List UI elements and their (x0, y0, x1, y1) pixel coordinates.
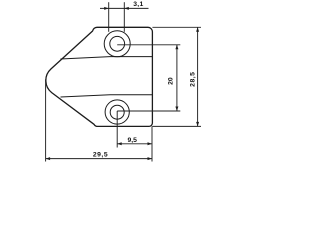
dim line 20 (176, 45, 178, 111)
arrow 9,5 left (117, 142, 122, 145)
svg-text:9,5: 9,5 (127, 137, 137, 144)
bottom hole vertical center line (ext for dim 9,5) (116, 111, 118, 148)
arrow 28,5 bottom (196, 122, 199, 127)
dim line 3,1 (100, 7, 149, 9)
top hole center line (ext for dim 20) (117, 44, 180, 46)
ext line dim 29,5 left (45, 79, 47, 161)
top hole inner circle (110, 36, 125, 51)
arrow 3,1 right (outside, pointing left) (124, 7, 129, 10)
svg-text:29,5: 29,5 (93, 152, 108, 159)
internal edge line lower (61, 95, 153, 97)
internal edge line upper (61, 57, 153, 59)
dim line 9,5 (117, 143, 152, 145)
arrow 9,5 right (148, 142, 153, 145)
arrow 29,5 right (148, 157, 153, 160)
part outline (46, 27, 153, 126)
svg-text:3,1: 3,1 (133, 1, 143, 8)
arrow 28,5 top (196, 27, 199, 32)
arrow 29,5 left (46, 157, 51, 160)
arrow 3,1 left (outside, pointing right) (104, 7, 109, 10)
ext line bottom edge for dim 28,5 (152, 125, 201, 127)
svg-text:28,5: 28,5 (189, 72, 196, 87)
dim line 28,5 (197, 27, 199, 126)
svg-text:20: 20 (168, 77, 175, 85)
ext line dim 9,5 right / 29,5 right (151, 126, 153, 161)
arrow 20 bottom (175, 107, 178, 112)
top hole outer circle (104, 31, 130, 57)
bottom hole center line (ext for dim 20) (117, 110, 180, 112)
bottom hole inner circle (110, 105, 124, 119)
bottom hole outer circle (105, 100, 129, 124)
ext line dim 3,1 right (123, 2, 125, 32)
arrow 20 top (175, 45, 178, 50)
ext line top edge for dim 28,5 (152, 26, 201, 28)
dim line 29,5 (46, 158, 152, 160)
ext line dim 3,1 left (108, 2, 110, 32)
